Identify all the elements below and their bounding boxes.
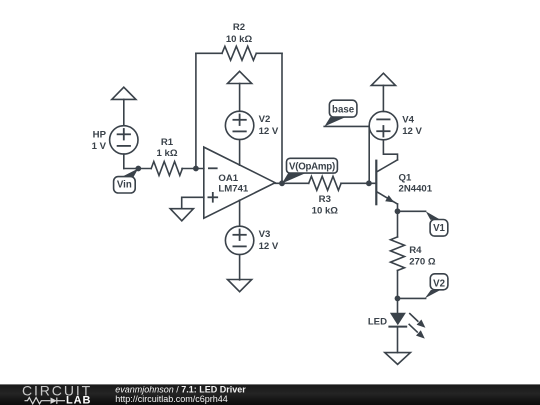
wire junction to V2 flag [398, 297, 426, 299]
svg-text:V4: V4 [402, 114, 414, 125]
wire V3 bottom to negative flag [239, 255, 241, 280]
node dot op-amp output [279, 180, 285, 186]
label V4 12 V [402, 114, 422, 137]
svg-text:base: base [332, 104, 355, 115]
wire LED cathode to ground [397, 327, 399, 353]
svg-text:R3: R3 [319, 194, 331, 205]
svg-text:R1: R1 [161, 137, 174, 148]
svg-text:V3: V3 [259, 229, 271, 240]
resistor R4 [391, 237, 405, 271]
wire HP bottom to node row [123, 154, 125, 168]
svg-text:V2: V2 [259, 114, 271, 125]
op-amp OA1 [204, 147, 275, 218]
node dot base junction [366, 180, 372, 186]
LED diode [389, 313, 406, 327]
node dot LED junction [395, 296, 401, 302]
wire node row to R1 [124, 168, 151, 170]
flag base [325, 100, 357, 126]
wire op-amp output [275, 182, 309, 184]
resistor R3 [309, 176, 341, 190]
svg-text:12 V: 12 V [259, 241, 279, 252]
ground at op-amp plus input [170, 209, 193, 221]
wire feedback top right [256, 52, 282, 54]
LED light arrows [409, 314, 425, 339]
svg-text:LED: LED [368, 317, 387, 328]
label R1 1 kOhm [156, 137, 177, 159]
wire op-amp bottom to V3 [239, 200, 241, 226]
label HP 1 V [92, 129, 107, 152]
svg-text:Q1: Q1 [399, 173, 412, 184]
svg-text:12 V: 12 V [259, 126, 279, 137]
svg-text:1 kΩ: 1 kΩ [156, 148, 177, 159]
footer title text [115, 384, 246, 404]
svg-text:10 kΩ: 10 kΩ [312, 206, 339, 217]
svg-text:evanmjohnson / 7.1: LED Driver: evanmjohnson / 7.1: LED Driver [115, 384, 246, 394]
node dot Vin attach [135, 166, 141, 172]
resistor R2 [222, 46, 256, 60]
node dot feedback junction [193, 166, 199, 172]
svg-text:R4: R4 [409, 245, 422, 256]
svg-text:LM741: LM741 [218, 183, 249, 194]
voltage source V3 [225, 226, 253, 254]
svg-text:LAB: LAB [66, 395, 91, 405]
svg-text:10 kΩ: 10 kΩ [226, 34, 253, 45]
svg-text:270 Ω: 270 Ω [409, 256, 436, 267]
transistor Q1 [376, 160, 397, 212]
CircuitLab logo [22, 383, 92, 405]
negative power flag below V3 [228, 280, 252, 292]
label R3 10 kOhm [312, 194, 339, 217]
svg-text:http://circuitlab.com/c6prh44: http://circuitlab.com/c6prh44 [115, 394, 228, 404]
wire R1 to op-amp minus input [182, 168, 204, 170]
svg-text:12 V: 12 V [402, 126, 422, 137]
flag Vin [114, 169, 139, 194]
wire feedback right vertical [281, 53, 283, 183]
voltage source V4 (minus on top) [369, 111, 397, 139]
ground below LED [385, 353, 411, 365]
svg-text:V1: V1 [433, 223, 445, 234]
svg-text:V(OpAmp): V(OpAmp) [289, 161, 335, 172]
wire emitter junction to V1 flag [398, 210, 426, 212]
label OA1 LM741 [218, 173, 249, 194]
label V3 12 V [259, 229, 279, 252]
voltage source HP [110, 126, 138, 154]
label R2 10 kOhm [226, 22, 253, 45]
label Q1 2N4401 [399, 173, 433, 195]
wire R4 to LED junction [397, 271, 399, 299]
label R4 270 Ohm [409, 245, 436, 267]
power flag above V2 [228, 71, 252, 111]
svg-text:HP: HP [93, 129, 107, 140]
flag V(OpAmp) [282, 158, 337, 183]
label V2 12 V [259, 114, 279, 137]
wire V2 bottom to op-amp top [239, 140, 241, 166]
wire R3 to Q1 base [341, 182, 376, 184]
flag V1 [426, 211, 448, 236]
wire emitter junction down to R4 [397, 211, 399, 237]
wire feedback left vertical [195, 53, 197, 168]
node dot emitter junction [395, 208, 401, 214]
wire V4 bottom to Q1 collector [383, 140, 397, 160]
footer bar [0, 384, 540, 405]
wire feedback top left [196, 52, 222, 54]
power flag above HP [112, 87, 136, 126]
svg-text:2N4401: 2N4401 [399, 183, 433, 194]
wire base flag to vertical [324, 125, 369, 127]
wire base vertical down [368, 126, 370, 183]
svg-text:Vin: Vin [117, 180, 132, 191]
flag V2 [425, 274, 448, 298]
wire junction to LED anode [397, 298, 399, 312]
power flag above V4 [371, 73, 395, 111]
voltage source V2 [225, 111, 253, 139]
svg-text:R2: R2 [233, 22, 245, 33]
wire op-amp plus input [182, 197, 204, 208]
svg-text:1 V: 1 V [92, 141, 107, 152]
svg-text:V2: V2 [433, 279, 445, 290]
resistor R1 [151, 162, 182, 176]
